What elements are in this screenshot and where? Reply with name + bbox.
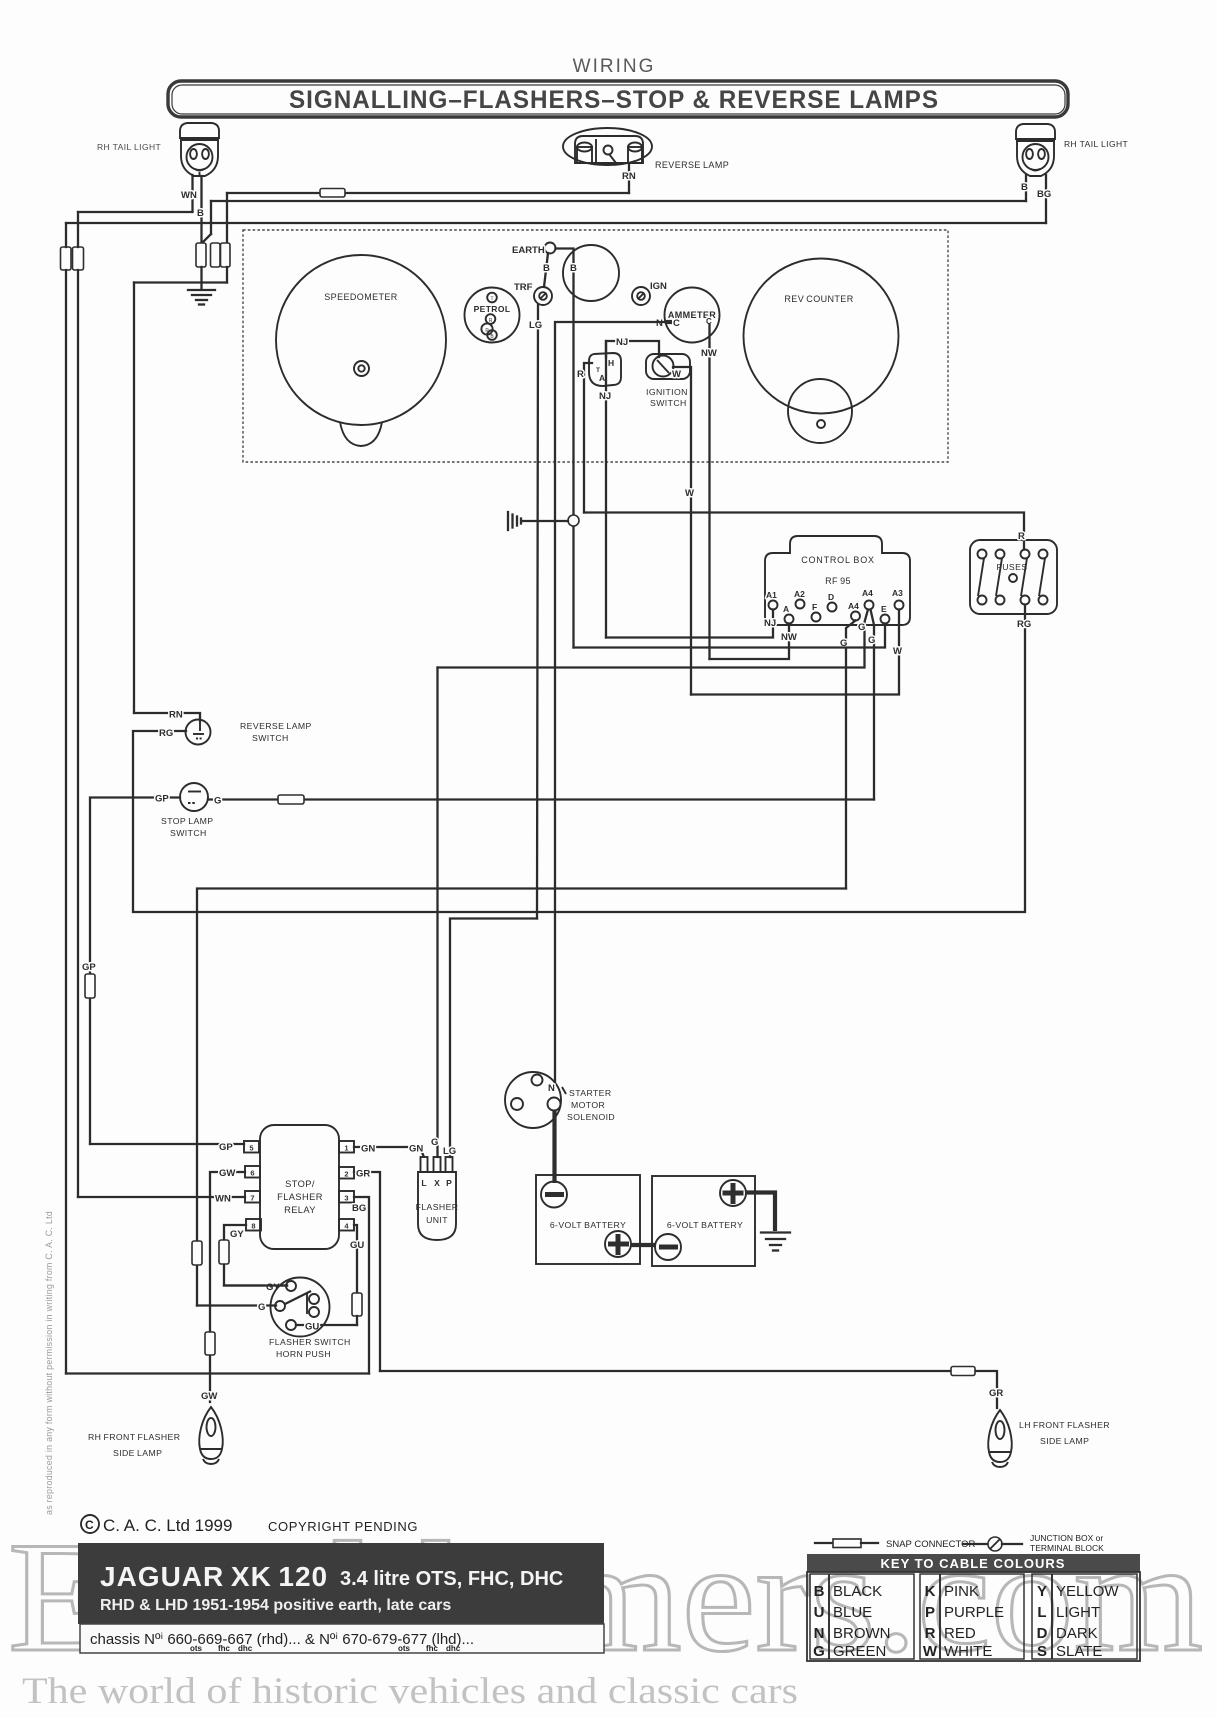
svg-text:UNIT: UNIT: [426, 1215, 448, 1225]
terminal D: [828, 603, 837, 612]
svg-text:EARTH: EARTH: [512, 245, 545, 256]
svg-text:R: R: [925, 1625, 936, 1642]
wire NW to A: [710, 624, 790, 660]
svg-text:IGN: IGN: [650, 281, 667, 292]
snap connector on GP vertical: [85, 974, 95, 998]
wire G long horizontal y888: [197, 889, 846, 1306]
wire B earth left leg: [544, 253, 548, 287]
relay tab 4: [339, 1219, 354, 1231]
svg-text:PURPLE: PURPLE: [944, 1604, 1004, 1621]
wire B from tail light down to ground: [200, 176, 202, 243]
svg-text:A2: A2: [794, 589, 805, 599]
svg-text:5: 5: [249, 1144, 253, 1153]
svg-text:NW: NW: [701, 348, 717, 359]
svg-text:A: A: [599, 373, 605, 383]
wire GR bottom to LH lamp: [380, 1371, 997, 1408]
copyright line: [81, 1515, 99, 1533]
wire NJ through gauge down: [605, 341, 607, 638]
stop/flasher relay: [260, 1125, 339, 1249]
svg-text:GN: GN: [409, 1144, 423, 1155]
wire BG long horizontal: [66, 222, 1046, 224]
svg-text:C: C: [85, 1518, 94, 1532]
terminal GY (flasher switch): [286, 1281, 296, 1291]
ground (tail light): [188, 290, 215, 305]
svg-text:PINK: PINK: [944, 1583, 979, 1600]
svg-text:W: W: [672, 369, 681, 380]
svg-text:P: P: [446, 1178, 452, 1188]
svg-text:WIRING: WIRING: [573, 56, 656, 77]
relay tab 8: [246, 1219, 261, 1231]
flasher unit: [418, 1172, 456, 1240]
svg-text:NJ: NJ: [764, 618, 776, 629]
6-volt battery 1: [536, 1175, 640, 1264]
svg-text:STOP LAMP: STOP LAMP: [161, 816, 214, 826]
wire GR from tab2: [354, 1172, 380, 1371]
svg-text:ots fhc dhc: ots fhc dhc: [398, 1644, 461, 1653]
svg-text:GREEN: GREEN: [833, 1643, 886, 1660]
svg-text:MOTOR: MOTOR: [571, 1100, 605, 1110]
svg-text:GW: GW: [219, 1168, 235, 1179]
svg-text:D: D: [1037, 1625, 1048, 1642]
snap connector on RN wire: [320, 189, 345, 198]
svg-text:N: N: [814, 1625, 825, 1642]
svg-text:R: R: [1018, 531, 1025, 542]
svg-text:6-VOLT BATTERY: 6-VOLT BATTERY: [667, 1220, 743, 1230]
svg-text:BG: BG: [1037, 189, 1051, 200]
control box RF95: [765, 536, 910, 625]
wire GU to flasher switch: [296, 1324, 357, 1326]
svg-text:G: G: [214, 796, 221, 807]
svg-text:BG: BG: [352, 1203, 366, 1214]
svg-text:SLATE: SLATE: [1056, 1643, 1102, 1660]
svg-text:Y: Y: [1037, 1583, 1047, 1600]
svg-text:B: B: [814, 1583, 825, 1600]
fuse terminals bottom: [978, 596, 987, 605]
terminal GU (flasher switch): [286, 1320, 296, 1330]
wire R stub into gauge: [584, 363, 592, 513]
wire WN to tab7: [78, 1196, 245, 1198]
svg-text:8: 8: [251, 1222, 255, 1231]
wire GU from tab4: [354, 1225, 357, 1293]
reverse lamp (top centre): [563, 128, 652, 165]
svg-text:C: C: [673, 318, 680, 329]
svg-text:TRF: TRF: [514, 282, 533, 293]
wire W from ignition switch: [673, 367, 691, 695]
svg-text:GR: GR: [356, 1169, 370, 1180]
terminal E: [881, 615, 890, 624]
rev counter: [744, 259, 899, 414]
svg-text:RHD & LHD 1951-1954 positive e: RHD & LHD 1951-1954 positive earth, late…: [100, 1597, 451, 1614]
wire NW from ammeter: [708, 325, 710, 659]
terminal A4 (upper): [865, 601, 874, 610]
svg-text:RF 95: RF 95: [825, 576, 851, 586]
svg-text:6-VOLT BATTERY: 6-VOLT BATTERY: [550, 1220, 626, 1230]
wire G fork-right from A4 upper: [871, 610, 875, 800]
flasher switch horn push: [271, 1278, 330, 1337]
svg-text:RG: RG: [159, 728, 173, 739]
table group 3: [1032, 1574, 1137, 1659]
fuse terminals top: [978, 550, 987, 559]
wire RN into switch: [134, 713, 200, 721]
svg-text:G: G: [813, 1643, 825, 1660]
speedometer: [276, 255, 446, 425]
wire N from ammeter (long left + down): [555, 322, 664, 1083]
svg-text:KEY TO CABLE COLOURS: KEY TO CABLE COLOURS: [881, 1556, 1066, 1571]
svg-text:REVERSE LAMP: REVERSE LAMP: [655, 160, 729, 170]
svg-text:B: B: [543, 263, 550, 274]
relay tab 2: [339, 1167, 354, 1179]
svg-text:LG: LG: [529, 320, 542, 331]
svg-text:WHITE: WHITE: [944, 1643, 992, 1660]
svg-text:FLASHER: FLASHER: [416, 1202, 459, 1212]
svg-text:CONTROL BOX: CONTROL BOX: [801, 555, 875, 565]
svg-text:GP: GP: [155, 794, 169, 805]
battery 2 earth wire (thick): [745, 1193, 775, 1232]
svg-text:REVERSE LAMP: REVERSE LAMP: [240, 721, 312, 731]
RH front flasher side lamp: [199, 1407, 223, 1464]
wire G from stop lamp switch: [208, 798, 874, 800]
svg-text:SWITCH: SWITCH: [650, 398, 687, 408]
terminal G (flasher switch): [275, 1301, 285, 1311]
legend junction box: [963, 1543, 988, 1545]
svg-text:FLASHER: FLASHER: [277, 1192, 323, 1202]
svg-text:B: B: [1021, 182, 1028, 193]
svg-text:GP: GP: [82, 962, 96, 973]
LH front flasher side lamp: [988, 1410, 1012, 1467]
svg-text:SWITCH: SWITCH: [252, 733, 289, 743]
svg-text:D: D: [828, 592, 834, 602]
svg-text:SIDE LAMP: SIDE LAMP: [1040, 1436, 1089, 1446]
wire B earth right leg: [556, 249, 574, 648]
wire RN horizontal y283: [134, 281, 227, 283]
junction box circle on B wire: [568, 515, 579, 526]
svg-text:NJ: NJ: [616, 337, 628, 348]
wire G into switch: [197, 1304, 276, 1306]
svg-text:GN: GN: [361, 1144, 375, 1155]
svg-text:C. A. C. Ltd 1999: C. A. C. Ltd 1999: [103, 1516, 232, 1535]
svg-text:T: T: [490, 297, 493, 303]
moving contact blade: [285, 1292, 310, 1305]
panel ground symbol: [508, 512, 521, 530]
wire B right-tail horizontal: [211, 200, 1026, 202]
wire NJ top (gauge H to ignition switch): [606, 341, 659, 357]
svg-text:GR: GR: [989, 1388, 1003, 1399]
svg-text:N: N: [656, 318, 663, 329]
svg-text:L: L: [421, 1178, 426, 1188]
svg-text:RH TAIL LIGHT: RH TAIL LIGHT: [97, 142, 161, 152]
terminal A1: [769, 601, 778, 610]
svg-text:G: G: [258, 1302, 265, 1313]
wire LG below TRF: [537, 305, 538, 919]
svg-text:6: 6: [250, 1169, 254, 1178]
svg-text:RN: RN: [622, 171, 636, 182]
terminal A3: [895, 601, 904, 610]
EARTH terminal: [545, 243, 556, 254]
instrument panel dashed border: [243, 230, 948, 462]
table group 2: [920, 1574, 1024, 1659]
RH tail light (right): [1016, 124, 1055, 176]
snap connector on GR bottom: [951, 1367, 975, 1376]
wire BG from tab3: [354, 1197, 369, 1374]
snap connector on GY: [219, 1240, 229, 1264]
chassis strip: [80, 1624, 604, 1653]
ammeter: [665, 288, 720, 343]
wire G from A4 lower: [846, 621, 856, 889]
wire B to E: [574, 624, 886, 648]
svg-text:3: 3: [344, 1194, 348, 1203]
svg-text:A4: A4: [848, 601, 859, 611]
svg-text:PETROL: PETROL: [474, 304, 511, 314]
svg-text:LIGHT: LIGHT: [1056, 1604, 1100, 1621]
svg-text:LH FRONT FLASHER: LH FRONT FLASHER: [1019, 1420, 1110, 1430]
svg-text:3.4 litre OTS, FHC, DHC: 3.4 litre OTS, FHC, DHC: [340, 1568, 563, 1590]
wire WN left vertical: [77, 212, 79, 247]
wire RG from fuses: [133, 605, 1025, 913]
svg-text:RH TAIL LIGHT: RH TAIL LIGHT: [1064, 139, 1128, 149]
svg-text:BLACK: BLACK: [833, 1583, 882, 1600]
svg-text:RH FRONT FLASHER: RH FRONT FLASHER: [88, 1432, 180, 1442]
svg-text:STOP/: STOP/: [285, 1179, 315, 1189]
wire corner x211 with contact blade: [210, 201, 212, 234]
svg-text:L: L: [1037, 1604, 1046, 1621]
wire GY from tab8: [224, 1225, 287, 1286]
svg-text:W: W: [893, 646, 902, 657]
legend snap connector: [815, 1542, 833, 1544]
RH tail light (left): [180, 123, 219, 177]
svg-text:ots fhc dhc: ots fhc dhc: [190, 1644, 253, 1653]
wire GP from stop lamp switch: [90, 798, 180, 1145]
relay tab 7: [245, 1191, 260, 1203]
svg-text:TERMINAL BLOCK: TERMINAL BLOCK: [1030, 1543, 1104, 1553]
svg-text:P: P: [925, 1604, 935, 1621]
wire WN from tail light: [191, 175, 193, 211]
svg-text:A1: A1: [766, 590, 777, 600]
wire GP to tab5: [90, 1143, 244, 1145]
svg-text:REV COUNTER: REV COUNTER: [784, 294, 853, 304]
svg-text:SPEEDOMETER: SPEEDOMETER: [324, 292, 398, 302]
terminal A: [785, 615, 794, 624]
wire LG jog: [450, 919, 537, 1158]
svg-text:B: B: [570, 263, 577, 274]
wire BG bottom return: [66, 1372, 369, 1374]
svg-text:WN: WN: [215, 1194, 231, 1205]
svg-text:X: X: [434, 1178, 440, 1188]
svg-text:U: U: [814, 1604, 825, 1621]
svg-text:A4: A4: [862, 588, 873, 598]
svg-text:GP: GP: [219, 1142, 233, 1153]
battery ground symbol: [761, 1233, 790, 1251]
wire RN vertical to reverse lamp switch: [133, 283, 135, 714]
relay tab 1: [339, 1141, 354, 1153]
svg-text:SIGNALLING–FLASHERS–STOP & REV: SIGNALLING–FLASHERS–STOP & REVERSE LAMPS: [289, 86, 939, 114]
svg-text:H: H: [608, 358, 614, 368]
svg-text:7: 7: [250, 1194, 254, 1203]
terminal A2: [796, 600, 805, 609]
title banner: [168, 81, 1068, 117]
svg-text:LG: LG: [443, 1146, 456, 1157]
ignition switch: [646, 354, 690, 379]
svg-text:NW: NW: [781, 632, 797, 643]
svg-text:RG: RG: [1017, 619, 1031, 630]
snap connectors row (three): [196, 243, 206, 267]
wire ground to junction: [522, 520, 568, 522]
fuses box: [970, 540, 1057, 614]
svg-text:RELAY: RELAY: [284, 1205, 316, 1215]
wire solenoid to battery (thick): [552, 1110, 556, 1183]
wire RN below snap: [226, 267, 228, 283]
svg-text:JAGUAR XK 120: JAGUAR XK 120: [100, 1561, 328, 1592]
svg-text:N: N: [548, 1083, 555, 1094]
svg-text:G: G: [858, 622, 865, 633]
snap connector on G vertical: [192, 1241, 202, 1265]
svg-text:B: B: [197, 208, 204, 219]
snap connector on GW: [205, 1332, 215, 1355]
TRF connector: [534, 287, 552, 305]
fuel gauge unit: [589, 353, 621, 386]
petrol gauge: [465, 288, 520, 343]
svg-text:W: W: [923, 1643, 938, 1660]
svg-text:SOLENOID: SOLENOID: [567, 1112, 615, 1122]
svg-text:COPYRIGHT PENDING: COPYRIGHT PENDING: [268, 1519, 418, 1534]
terminal F: [812, 613, 821, 622]
snap connectors far-left pair: [61, 247, 72, 270]
battery link wire (thick): [630, 1243, 656, 1247]
svg-text:GU: GU: [350, 1240, 364, 1251]
svg-text:as reproduced in any form with: as reproduced in any form without permis…: [44, 1211, 54, 1515]
svg-text:2: 2: [344, 1170, 348, 1179]
wire GY into switch: [224, 1284, 287, 1286]
svg-text:BLUE: BLUE: [833, 1604, 872, 1621]
snap connector on GU: [352, 1293, 362, 1316]
horn contacts: [309, 1294, 319, 1304]
svg-text:GY: GY: [230, 1229, 244, 1240]
wire BG left vertical: [65, 223, 67, 247]
clock gauge: [563, 245, 619, 301]
svg-text:A: A: [783, 604, 789, 614]
svg-text:YELLOW: YELLOW: [1056, 1583, 1119, 1600]
6-volt battery 2: [652, 1176, 755, 1266]
svg-text:E: E: [881, 604, 887, 614]
IGN connector: [632, 287, 650, 305]
wire B below snap to ground: [200, 267, 202, 289]
wire NJ to A1: [606, 610, 773, 638]
key to cable colours table: [807, 1554, 1140, 1572]
svg-text:SIDE LAMP: SIDE LAMP: [113, 1448, 162, 1458]
svg-text:G: G: [431, 1137, 438, 1148]
reverse lamp switch: [186, 720, 211, 745]
terminal A4 (lower): [851, 612, 860, 621]
starter motor solenoid: [505, 1072, 561, 1128]
table group 1: [810, 1574, 914, 1659]
svg-text:GW: GW: [201, 1391, 217, 1402]
wire GN tab1 to flasher unit: [354, 1147, 424, 1156]
svg-text:R: R: [489, 318, 493, 324]
wire corner x227: [226, 193, 228, 243]
jaguar title block: [78, 1543, 604, 1624]
wire GW from tab6: [210, 1172, 245, 1402]
svg-text:R: R: [577, 369, 584, 380]
svg-text:IGNITION: IGNITION: [646, 387, 688, 397]
svg-text:BROWN: BROWN: [833, 1625, 891, 1642]
svg-text:K: K: [925, 1583, 936, 1600]
relay tab 6: [245, 1166, 260, 1178]
svg-text:W: W: [685, 488, 694, 499]
snap connector on G wire: [278, 795, 304, 804]
svg-text:A3: A3: [892, 588, 903, 598]
svg-text:S: S: [1037, 1643, 1047, 1660]
svg-text:The world of historic vehicles: The world of historic vehicles and class…: [22, 1671, 798, 1712]
svg-text:F: F: [812, 602, 817, 612]
svg-text:STARTER: STARTER: [569, 1088, 612, 1098]
svg-text:RED: RED: [944, 1625, 976, 1642]
svg-text:G: G: [868, 635, 875, 646]
relay tab 3: [339, 1191, 354, 1203]
wire W to A3: [691, 610, 899, 695]
svg-text:RN: RN: [169, 710, 183, 721]
svg-text:DARK: DARK: [1056, 1625, 1098, 1642]
svg-text:WN: WN: [181, 190, 197, 201]
svg-text:FLASHER SWITCH: FLASHER SWITCH: [269, 1337, 351, 1347]
svg-text:SWITCH: SWITCH: [170, 828, 207, 838]
wire R to fuses: [584, 513, 1024, 550]
relay tab 5: [244, 1141, 259, 1153]
svg-text:HORN PUSH: HORN PUSH: [276, 1349, 331, 1359]
wire G fork-left from A4 upper: [438, 610, 869, 668]
wire RN horizontal (reverse lamp to corner): [227, 192, 629, 194]
stop lamp switch: [180, 783, 208, 811]
wire RN drop from reverse lamp: [628, 164, 630, 193]
fuse links: [978, 558, 984, 596]
wire G to flasher unit: [436, 668, 438, 1158]
svg-text:1: 1: [344, 1144, 348, 1153]
svg-text:NJ: NJ: [599, 391, 611, 402]
svg-text:JUNCTION BOX or: JUNCTION BOX or: [1030, 1533, 1103, 1543]
